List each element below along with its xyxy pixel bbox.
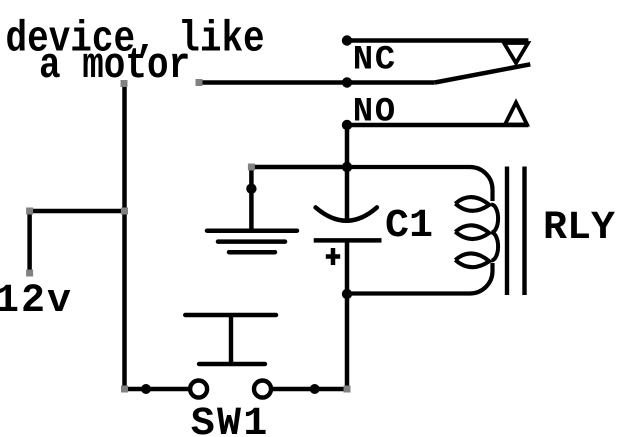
note text: device, like a motor (6, 15, 265, 90)
wire: NC contact (347, 38, 528, 43)
endpoint marker: 12v stub end (26, 270, 33, 277)
wire: SW1 to bottom corner (273, 387, 347, 392)
relay core bar 2 (522, 167, 526, 296)
endpoint marker: ground corner (248, 164, 255, 171)
wire: bottom left to SW1 (125, 387, 189, 392)
relay core bar 1 (505, 167, 509, 296)
relay NO contact triangle (505, 103, 527, 125)
svg-text:a motor: a motor (39, 41, 190, 90)
relay NC contact triangle (504, 43, 528, 63)
endpoint marker: 12v junction (121, 208, 128, 215)
wire: 12v horizontal feed (30, 209, 125, 214)
wire: common feed from motor (199, 80, 435, 85)
svg-text:NO: NO (353, 94, 397, 132)
endpoint marker: bottom right corner (344, 386, 351, 393)
endpoint marker: bottom left corner (121, 386, 128, 393)
svg-text:NC: NC (353, 42, 397, 80)
junction dot: common node (342, 77, 352, 87)
junction dot on bottom left wire (141, 384, 151, 394)
svg-text:12v: 12v (0, 279, 73, 324)
junction dot: NC (342, 35, 352, 45)
switch SW1 pushbutton (185, 315, 276, 398)
wire: right vertical up from bottom corner (345, 294, 350, 389)
endpoint marker: main vertical top (121, 80, 128, 87)
junction dot: coil top node (342, 162, 352, 172)
svg-text:SW1: SW1 (191, 402, 270, 437)
ground GND symbol (207, 167, 297, 252)
wire: 12v stub vertical (27, 209, 32, 272)
wire: NO contact (347, 123, 528, 128)
endpoint marker: 12v corner (26, 208, 33, 215)
svg-text:RLY: RLY (543, 206, 615, 251)
wire: capacitor bottom to coil bottom node (345, 240, 350, 294)
svg-text:C1: C1 (385, 204, 433, 249)
junction dot: coil bottom node (342, 289, 352, 299)
junction dot on bottom right wire (310, 384, 320, 394)
wire: NO down to coil node (345, 125, 350, 167)
relay RLY coil (347, 167, 498, 294)
endpoint marker: common wire left (196, 79, 203, 86)
junction dot: NO (342, 120, 352, 130)
wire: node down to capacitor top (345, 167, 350, 221)
capacitor C1 (314, 207, 382, 265)
wire: main vertical from motor down to switch (122, 84, 127, 389)
relay RLY movable contact arm (435, 64, 531, 82)
wire: ground branch horizontal (251, 165, 347, 170)
